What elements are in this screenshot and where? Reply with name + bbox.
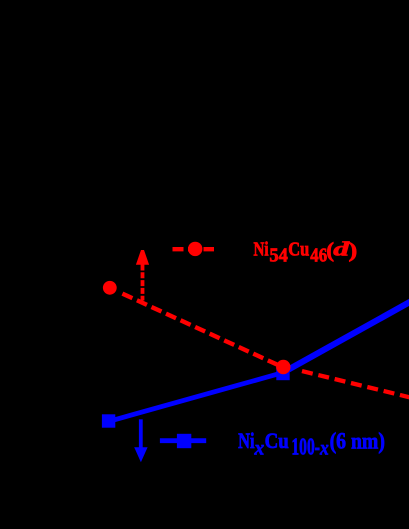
svg-text:x: x	[254, 437, 265, 460]
svg-text:Ni: Ni	[238, 428, 255, 453]
svg-text:x: x	[319, 437, 329, 460]
svg-text:Cu: Cu	[265, 427, 290, 453]
svg-text:Ni: Ni	[254, 237, 269, 260]
svg-text:54: 54	[269, 245, 288, 267]
svg-text:100-: 100-	[291, 434, 320, 460]
svg-text:Cu: Cu	[288, 238, 309, 260]
svg-text:(6 nm): (6 nm)	[330, 428, 385, 454]
svg-text:d: d	[333, 238, 350, 260]
svg-text:46: 46	[310, 244, 327, 266]
svg-text:): )	[349, 239, 358, 262]
